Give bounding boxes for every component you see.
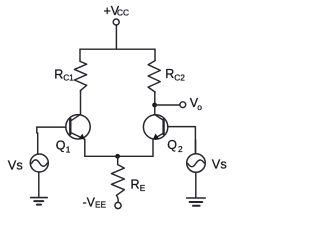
wire emitter rail bbox=[85, 155, 153, 157]
ground left bbox=[31, 198, 48, 205]
node junction dot collector Q2 bbox=[152, 103, 157, 108]
label Vs right bbox=[212, 157, 227, 172]
output terminal Vo bbox=[180, 102, 186, 108]
wire left source up bbox=[36, 127, 39, 154]
svg-text:Q: Q bbox=[167, 138, 177, 152]
wire RC2 to node bbox=[154, 92, 156, 105]
label -VEE bbox=[83, 196, 107, 210]
svg-text:CC: CC bbox=[117, 8, 129, 18]
wire right source up bbox=[195, 140, 197, 154]
label RC2 bbox=[165, 67, 185, 82]
resistor RC2 bbox=[148, 61, 160, 93]
svg-text:E: E bbox=[140, 183, 146, 193]
transistor Q1 bbox=[66, 114, 90, 139]
wire Q2 base lead bbox=[168, 127, 196, 154]
svg-text:EE: EE bbox=[95, 200, 107, 210]
svg-text:R: R bbox=[54, 68, 63, 82]
wire VCC feed bbox=[115, 25, 117, 49]
label Q2 bbox=[167, 138, 183, 154]
power terminal +VCC bbox=[113, 19, 119, 25]
svg-text:1: 1 bbox=[66, 144, 71, 154]
svg-text:Vs: Vs bbox=[8, 158, 23, 173]
wire node to Q2 collector bbox=[154, 105, 156, 115]
wire right source to ground bbox=[195, 172, 197, 198]
label Vs left bbox=[8, 158, 23, 173]
wire Q2 emitter drop bbox=[152, 139, 154, 156]
wire to output bbox=[155, 104, 180, 106]
label RE bbox=[131, 178, 146, 194]
wire RE top bbox=[117, 156, 119, 164]
label Vo bbox=[190, 96, 203, 112]
power terminal -VEE bbox=[115, 202, 121, 208]
svg-text:R: R bbox=[165, 67, 174, 81]
svg-text:C2: C2 bbox=[174, 72, 185, 82]
svg-text:2: 2 bbox=[178, 144, 183, 154]
transistor Q2 bbox=[143, 115, 167, 140]
resistor RE bbox=[111, 165, 124, 203]
wire left branch drop bbox=[79, 49, 81, 61]
wire left source to ground bbox=[38, 172, 40, 198]
wire RC1 to Q1 collector bbox=[80, 91, 82, 115]
wire Q1 base lead bbox=[37, 126, 66, 128]
wire top rail bbox=[80, 48, 155, 50]
label RC1 bbox=[54, 68, 74, 83]
resistor RC1 bbox=[74, 62, 86, 91]
wire Q1 emitter drop bbox=[84, 139, 86, 156]
label +VCC bbox=[104, 4, 129, 18]
label Q1 bbox=[56, 139, 71, 155]
svg-text:Vs: Vs bbox=[212, 157, 227, 172]
source Vs right bbox=[187, 154, 206, 173]
ground right bbox=[187, 198, 206, 206]
svg-text:o: o bbox=[197, 102, 202, 112]
source Vs left bbox=[30, 154, 48, 172]
svg-text:R: R bbox=[131, 178, 140, 192]
wire right branch drop bbox=[154, 49, 156, 60]
svg-text:Q: Q bbox=[56, 139, 66, 153]
svg-text:-V: -V bbox=[83, 196, 96, 210]
svg-text:C1: C1 bbox=[63, 73, 74, 83]
node junction dot emitters bbox=[115, 154, 120, 159]
